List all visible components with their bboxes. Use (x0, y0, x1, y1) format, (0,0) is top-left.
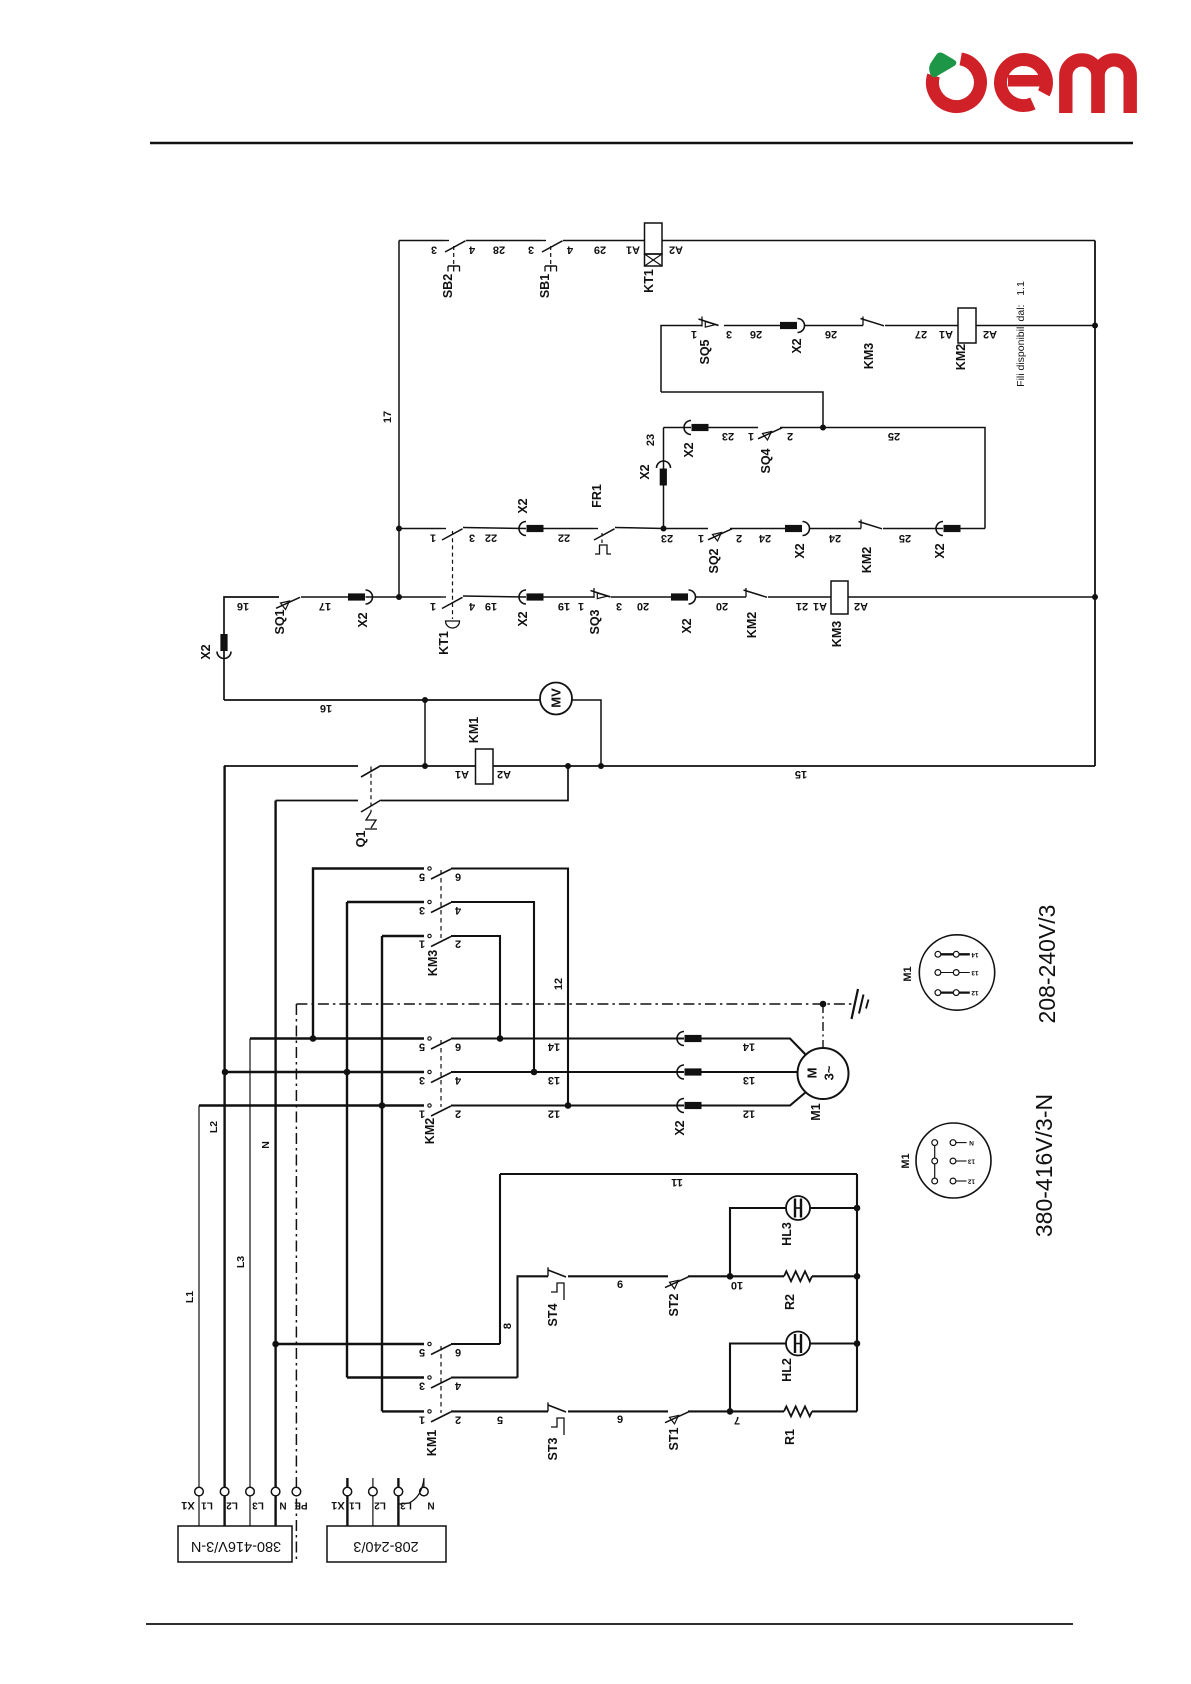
SB1 actuator stem (dashed) (550, 246, 552, 264)
wire Q1 pole1 to KM1 coil (381, 765, 476, 767)
svg-text:SQ1: SQ1 (273, 609, 287, 634)
wire 19 (X2-SQ3) (544, 596, 595, 598)
svg-text:22: 22 (485, 532, 497, 544)
wire 1 (corner into SQ5 line) (661, 326, 702, 393)
svg-text:M1: M1 (900, 1153, 912, 1168)
svg-text:3~: 3~ (822, 1065, 837, 1080)
svg-text:8: 8 (502, 1323, 514, 1329)
wire SQ4 to junction (780, 427, 823, 429)
wire 20 (X2-KM2 aux b) (696, 596, 747, 598)
motor terminal detail 208V circle (919, 935, 994, 1010)
wire 27 (KM3-KM2 coil) (885, 325, 958, 327)
svg-text:17: 17 (382, 411, 394, 423)
svg-text:28: 28 (493, 244, 505, 256)
terminal X1 N (208V) (420, 1487, 429, 1496)
wire 25 (KM2aux-X2) (883, 528, 943, 530)
earth symbol (852, 989, 859, 1019)
protective earth line PE (horizontal) (296, 1003, 853, 1005)
wire motor phase 12 (702, 1092, 807, 1106)
svg-text:14: 14 (742, 1041, 755, 1053)
wire KM2 row3 right (451, 1104, 684, 1106)
svg-text:SQ3: SQ3 (588, 609, 602, 634)
page footer rule (146, 1623, 1073, 1625)
SB1 actuator head (545, 265, 557, 267)
junction KM1 coil line / wire16 branch (422, 763, 428, 769)
svg-text:X2: X2 (638, 464, 652, 479)
wire 16 (x=224 to MV) (224, 699, 540, 701)
svg-text:4: 4 (454, 1074, 461, 1086)
wire: right supply rail x=1095 (1094, 241, 1096, 767)
svg-text:L3: L3 (400, 1500, 412, 1511)
svg-text:KM3: KM3 (862, 343, 876, 369)
svg-text:A2: A2 (497, 768, 511, 780)
supply line L1 (198, 1106, 200, 1488)
wire KM3 coil to right rail (848, 596, 1095, 598)
wire MV right to corner (572, 700, 601, 766)
svg-text:L3: L3 (252, 1500, 264, 1511)
terminal X1 L1 (208V) (343, 1487, 352, 1496)
svg-text:X2: X2 (199, 644, 213, 659)
pushbutton SB2 (NC) (444, 240, 449, 242)
logo green wedge (929, 52, 956, 77)
svg-text:3: 3 (726, 328, 732, 340)
wire 11 (500, 1173, 857, 1175)
svg-text:M1: M1 (902, 966, 914, 981)
KM1 mechanical link (dashed) (440, 1346, 442, 1413)
terminal X1 L3 (380V) (246, 1487, 255, 1496)
svg-text:X2: X2 (516, 498, 530, 513)
time relay coil KT1 (645, 223, 663, 254)
svg-text:13: 13 (971, 969, 979, 976)
svg-text:KM2: KM2 (423, 1118, 437, 1144)
svg-text:ST1: ST1 (667, 1427, 681, 1450)
junction PE/motor earth (820, 1001, 827, 1008)
wire SQ4 line left segment (664, 427, 692, 429)
wire 8 riser (KM1 row1 to wire 11) (499, 1174, 501, 1344)
junction HL3 branch/R2 line (727, 1273, 734, 1280)
svg-text:L2: L2 (208, 1121, 220, 1133)
wire rail-KT1 contact b (399, 596, 441, 598)
wire HL3 branch (730, 1208, 786, 1276)
svg-text:L3: L3 (235, 1256, 247, 1268)
svg-text:16: 16 (237, 600, 249, 612)
riser x382 (KM3 row3 to KM1 row3) (381, 936, 383, 1411)
svg-text:380-416V/3-N: 380-416V/3-N (191, 1538, 281, 1554)
Q1 mechanical link (dashed) (370, 767, 372, 813)
supply line L3 (249, 1039, 251, 1488)
svg-text:4: 4 (468, 600, 475, 612)
wire 16 (corner to SQ1) (224, 597, 279, 700)
wire KM2 row1 right (451, 1037, 684, 1039)
svg-text:6: 6 (455, 1041, 461, 1053)
svg-text:2: 2 (455, 938, 461, 950)
wire 24 (X2-KM2 aux) (810, 528, 862, 530)
svg-text:2: 2 (736, 532, 742, 544)
junction KM3 row3 riser/KM2 row1 (497, 1035, 504, 1042)
junction KM3 riser/KM2 row2 right (531, 1069, 538, 1076)
svg-text:R2: R2 (783, 1294, 797, 1310)
terminal X2 on wire 22 (519, 522, 526, 536)
svg-text:15: 15 (795, 768, 807, 780)
svg-text:L2: L2 (374, 1500, 386, 1511)
terminal X2 on wire 26 (798, 319, 805, 333)
wire KM3 row2 left (347, 901, 424, 903)
wire KM3 row3 left (382, 935, 424, 937)
svg-text:9: 9 (617, 1414, 623, 1426)
junction HL3/right drop (854, 1205, 861, 1212)
KT1 delay symbol (half circle) (446, 621, 460, 628)
wire R1 to rail (812, 1410, 857, 1412)
terminal X2 motor wire 12 (677, 1099, 684, 1113)
wire L2 drop corner to Q1 (224, 765, 358, 767)
page header rule (150, 142, 1133, 145)
svg-text:6: 6 (455, 871, 461, 883)
svg-text:1: 1 (419, 938, 425, 950)
junction HL2/right drop (854, 1340, 861, 1347)
svg-text:5: 5 (419, 1346, 425, 1358)
svg-text:SQ4: SQ4 (759, 448, 773, 473)
wire KM1 row2 right (451, 1376, 518, 1378)
contactor main contact KM3-1 (428, 867, 431, 870)
svg-text:26: 26 (825, 328, 837, 340)
svg-text:24: 24 (828, 532, 841, 544)
riser x347 (KM3 row2 to KM1 row2) (346, 902, 348, 1378)
svg-text:4: 4 (468, 244, 475, 256)
wire rail-KT1 contact (399, 528, 441, 530)
svg-text:A1: A1 (813, 600, 827, 612)
svg-text:A2: A2 (983, 328, 997, 340)
svg-text:1: 1 (430, 532, 436, 544)
heater resistor R2 (784, 1271, 812, 1281)
svg-text:23: 23 (661, 532, 673, 544)
junction right rail / KM3 coil line (1092, 594, 1098, 600)
380V detail row N (953, 1142, 967, 1144)
junction right rail / SQ5 branch (1092, 323, 1098, 329)
junction wire23/FR1 line (661, 526, 667, 532)
svg-text:3: 3 (431, 244, 437, 256)
wire KM2 row1 mid (313, 1037, 424, 1039)
wire HL2 to rail (810, 1342, 857, 1344)
svg-text:13: 13 (743, 1074, 755, 1086)
wire 23 (vertical from SQ4 line to FR1 line with terminal) (663, 428, 665, 529)
wire 28 (SB2-SB1) (466, 240, 541, 242)
junction rail bottom (396, 594, 402, 600)
junction wire15/MV riser (598, 763, 604, 769)
wire HL3 to rail (810, 1207, 857, 1209)
terminal X1 L3 (208V) (394, 1487, 403, 1496)
wire KM3 row2 right (451, 902, 534, 1072)
Q1 actuator (366, 812, 376, 828)
svg-text:N: N (969, 1139, 974, 1146)
wire KM1 row1 left (from N) (276, 1343, 424, 1345)
wire motor phase 13 (702, 1071, 798, 1073)
ST4 probe symbol (551, 1283, 564, 1300)
svg-text:X2: X2 (790, 338, 804, 353)
svg-text:1: 1 (419, 1108, 425, 1120)
svg-text:X2: X2 (356, 612, 370, 627)
limit switch SQ1 (NO) (276, 597, 300, 608)
wire KM1 row3 left (382, 1410, 424, 1412)
svg-text:13: 13 (548, 1074, 560, 1086)
svg-text:L2: L2 (226, 1500, 238, 1511)
main switch Q1 pole 2 (361, 800, 381, 812)
svg-text:X1: X1 (181, 1499, 194, 1511)
terminal X1 L1 (380V) (195, 1487, 204, 1496)
wire 24 (SQ2-X2) (730, 528, 785, 530)
svg-text:2: 2 (455, 1413, 461, 1425)
svg-text:A1: A1 (455, 768, 469, 780)
svg-text:13: 13 (968, 1158, 976, 1165)
time relay contact KT1-b (441, 596, 446, 598)
svg-text:X1: X1 (331, 1499, 344, 1511)
KM3 mechanical link (dashed) (440, 870, 442, 938)
svg-text:M1: M1 (809, 1103, 823, 1120)
wire KM1 row1 right (451, 1343, 500, 1345)
terminal X2 on vertical wire 16 (220, 634, 227, 651)
svg-text:27: 27 (915, 328, 927, 340)
svg-text:23: 23 (645, 434, 657, 446)
protective earth line PE (vertical) (295, 1004, 297, 1561)
svg-text:10: 10 (731, 1279, 743, 1291)
wire KM2 row2 left (from L2) (225, 1071, 424, 1073)
wire HL2 branch (730, 1344, 786, 1412)
wire 22 (X2-FR1) (544, 528, 594, 530)
terminal X2 on wire 19 (519, 590, 526, 604)
wire 9 (ST3-ST1) (568, 1410, 668, 1412)
junction rail/KT1 contact line (396, 526, 402, 532)
indicator lamp HL2 (786, 1332, 810, 1356)
svg-text:25: 25 (899, 532, 911, 544)
FR1 trip link (dashed) (601, 533, 603, 545)
svg-text:1: 1 (691, 328, 697, 340)
svg-text:M: M (805, 1068, 820, 1079)
svg-text:KM2: KM2 (860, 547, 874, 573)
contactor main contact KM3-3 (428, 934, 431, 937)
svg-text:MV: MV (549, 688, 564, 708)
svg-text:N: N (279, 1500, 286, 1511)
FR1 overload symbol (595, 545, 611, 554)
contactor main contact KM2-1 (428, 1037, 431, 1040)
svg-text:1: 1 (578, 600, 584, 612)
svg-text:1: 1 (698, 532, 704, 544)
svg-text:A1: A1 (939, 328, 953, 340)
svg-text:11: 11 (671, 1176, 683, 1188)
junction wire16/KM1 branch (422, 697, 428, 703)
wire KM2 row2 right (451, 1071, 684, 1073)
svg-text:KM3: KM3 (830, 621, 844, 647)
pushbutton SB1 (NC) (541, 240, 546, 242)
wire junction down to KM1 coil line (424, 700, 426, 766)
limit switch SQ3 (NO) (593, 588, 595, 598)
junction L1 riser/KM2 row3 (379, 1102, 386, 1109)
junction SQ4/wire25 (820, 425, 826, 431)
limit switch SQ2 (NO) (708, 529, 732, 540)
contactor main contact KM1-3 (428, 1410, 431, 1413)
svg-text:2: 2 (787, 430, 793, 442)
KM2 mechanical link (dashed) (440, 1040, 442, 1107)
svg-text:X2: X2 (673, 1120, 687, 1135)
svg-text:A2: A2 (854, 600, 868, 612)
svg-text:208-240V/3: 208-240V/3 (1034, 905, 1060, 1024)
svg-text:ST4: ST4 (546, 1303, 560, 1326)
svg-text:7: 7 (734, 1414, 740, 1426)
main switch Q1 pole 1 (361, 766, 381, 778)
contactor coil KM3 (831, 581, 848, 614)
wire 23-SQ2 (664, 528, 709, 530)
wire top rail (KT1 coil to right rail) (662, 240, 1095, 242)
svg-text:14: 14 (547, 1041, 560, 1053)
svg-text:25: 25 (888, 430, 900, 442)
terminal X2 on wire 25 (936, 522, 943, 536)
svg-text:22: 22 (558, 532, 570, 544)
junction KM3 riser/KM2 row1 (310, 1035, 317, 1042)
208V detail row 14 (938, 953, 970, 955)
svg-text:X2: X2 (933, 543, 947, 558)
junction wire15/Q1 pole2 riser (565, 763, 571, 769)
svg-text:12: 12 (553, 978, 565, 990)
thermostat ST2 (NO) (665, 1277, 689, 1288)
svg-text:SQ5: SQ5 (698, 339, 712, 364)
wire 19 (KT1b-X2) (463, 596, 526, 597)
svg-text:16: 16 (320, 702, 332, 714)
fan motor MV (540, 683, 572, 715)
svg-text:1: 1 (430, 600, 436, 612)
svg-text:L1: L1 (201, 1500, 213, 1511)
svg-text:20: 20 (637, 600, 649, 612)
wire 17 (X2-SQ1) (301, 596, 348, 598)
junction L2/KM2 row2 (222, 1069, 229, 1076)
jumper N-L3 (208V) (400, 1479, 424, 1504)
ST3 probe symbol (551, 1418, 564, 1435)
wire 20 (SQ3-X2) (611, 596, 671, 598)
svg-text:12: 12 (548, 1108, 560, 1120)
svg-text:4: 4 (566, 244, 573, 256)
svg-text:1: 1 (748, 430, 754, 442)
svg-text:4: 4 (454, 904, 461, 916)
terminal X2 on vertical wire 23 (657, 461, 671, 468)
svg-text:20: 20 (716, 600, 728, 612)
wire motor phase 14 (702, 1039, 807, 1056)
svg-text:3: 3 (616, 600, 622, 612)
svg-text:3: 3 (528, 244, 534, 256)
junction R2/right drop (854, 1273, 861, 1280)
earth branch to motor (dash-dot) (822, 1004, 824, 1048)
wire 6 (ST4-ST2) (568, 1275, 668, 1277)
svg-text:HL2: HL2 (780, 1358, 794, 1382)
svg-text:5: 5 (497, 1414, 503, 1426)
wire 26 (X2-KM3 aux) (805, 325, 864, 327)
SB2 actuator head (448, 265, 460, 267)
svg-text:21: 21 (796, 600, 808, 612)
svg-text:1: 1 (419, 1413, 425, 1425)
wire KM3 row3 right (451, 936, 500, 1039)
svg-text:3: 3 (419, 904, 425, 916)
wire X2 to corner x=985 (961, 528, 986, 530)
thermostat ST4 (NC) (547, 1267, 549, 1276)
svg-text:A2: A2 (669, 244, 683, 256)
thermostat ST1 (NO) (665, 1412, 689, 1423)
svg-text:N: N (260, 1141, 272, 1149)
svg-text:L1: L1 (349, 1500, 361, 1511)
svg-text:6: 6 (455, 1346, 461, 1358)
contactor main contact KM3-2 (428, 900, 431, 903)
svg-text:SQ2: SQ2 (707, 548, 721, 573)
svg-text:4: 4 (454, 1380, 461, 1392)
svg-text:26: 26 (750, 328, 762, 340)
contactor main contact KM1-1 (428, 1342, 431, 1345)
svg-text:24: 24 (758, 532, 771, 544)
svg-text:29: 29 (594, 244, 606, 256)
wire from junction up to SQ5 corner (661, 392, 823, 428)
svg-text:12: 12 (743, 1108, 755, 1120)
svg-text:23: 23 (722, 430, 734, 442)
svg-text:L1: L1 (184, 1291, 196, 1303)
svg-text:5: 5 (419, 871, 425, 883)
wire 17 (rail to X2) (366, 596, 400, 598)
wire 26 (SQ5-X2) (724, 325, 780, 327)
svg-text:208-240/3: 208-240/3 (353, 1538, 418, 1554)
208V detail row 13 (938, 972, 970, 974)
wire 29 (SB1-KT1 coil) (563, 240, 645, 242)
svg-text:KT1: KT1 (642, 269, 656, 293)
svg-text:Q1: Q1 (354, 831, 368, 848)
terminal X2 on SQ4 line (684, 421, 691, 435)
KT1 mechanical link (dashed) (452, 531, 454, 619)
contactor coil KM1 (476, 749, 494, 784)
wire 22 (KT1a-X2) (463, 528, 526, 529)
SB2 actuator stem (dashed) (453, 246, 455, 264)
svg-text:17: 17 (319, 600, 331, 612)
terminal strip X1 380V box (178, 1526, 292, 1562)
logo letter e (red) (1000, 60, 1046, 106)
motor terminal detail 380V circle (916, 1123, 991, 1198)
supply line N (274, 801, 276, 1488)
terminal strip X1 208V box (327, 1526, 446, 1562)
svg-text:12: 12 (968, 1178, 976, 1185)
contactor main contact KM1-2 (428, 1376, 431, 1379)
junction HL2 branch/R1 line (727, 1408, 734, 1415)
wire right drop (11 to R1) (856, 1174, 858, 1411)
terminal X2 motor wire 14 (677, 1032, 684, 1046)
svg-text:HL3: HL3 (780, 1222, 794, 1246)
wire ST4 line (riser to ST4) (518, 1276, 549, 1377)
terminal X1 PE (380V) (292, 1487, 301, 1496)
terminal X2 motor wire 13 (677, 1065, 684, 1079)
svg-text:3: 3 (469, 532, 475, 544)
svg-text:380-416V/3-N: 380-416V/3-N (1031, 1094, 1057, 1237)
svg-text:KM2: KM2 (745, 612, 759, 638)
wire KM2 row3 left (from L1) (199, 1104, 424, 1106)
svg-text:12: 12 (971, 989, 979, 996)
time relay contact KT1-a (441, 528, 446, 530)
terminal X2 on wire 20 (689, 590, 696, 604)
node: corner rail x=399 top (398, 241, 400, 598)
thermostat ST3 (NC) (547, 1402, 549, 1411)
contactor coil KM2 (958, 308, 976, 343)
indicator lamp HL3 (786, 1196, 810, 1220)
wire KM3 row1 left (313, 869, 424, 1039)
svg-text:KM2: KM2 (954, 344, 968, 370)
svg-text:14: 14 (971, 951, 979, 958)
logo letter m (red) (1066, 60, 1098, 113)
svg-text:3: 3 (419, 1380, 425, 1392)
wire R2 to rail (812, 1275, 857, 1277)
svg-text:A1: A1 (626, 244, 640, 256)
wire 17/28 top rail segment (399, 240, 444, 242)
terminal X2 on wire 24 (803, 522, 810, 536)
junction N/KM1 row1 (272, 1341, 279, 1348)
svg-text:Fili disponibili dal: 1.1: Fili disponibili dal: 1.1 (1015, 281, 1027, 387)
